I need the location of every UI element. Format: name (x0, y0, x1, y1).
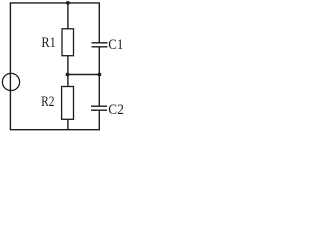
node top junction (66, 1, 70, 5)
node middle junction (66, 73, 70, 77)
resistor R2 (62, 87, 74, 120)
capacitor C1 (92, 43, 108, 47)
wire R1 to node (67, 56, 69, 87)
svg-text:C2: C2 (108, 102, 124, 118)
wire top (10, 2, 100, 4)
wire bottom (10, 129, 100, 131)
wire right upper (top to C1) (98, 3, 100, 43)
svg-text:C1: C1 (108, 37, 123, 53)
svg-text:R2: R2 (41, 94, 54, 110)
wire right lower (C2 to bottom) (98, 110, 100, 130)
wire right middle (C1 to C2) (98, 47, 100, 106)
wire R2 to bottom (67, 119, 69, 129)
node right junction (98, 73, 102, 77)
wire left (9, 3, 11, 130)
wire middle horizontal (68, 74, 100, 76)
capacitor C2 (91, 106, 107, 110)
svg-text:R1: R1 (41, 35, 55, 51)
wire middle branch top (67, 3, 69, 29)
source circle (2, 73, 19, 90)
resistor R1 (62, 29, 74, 56)
